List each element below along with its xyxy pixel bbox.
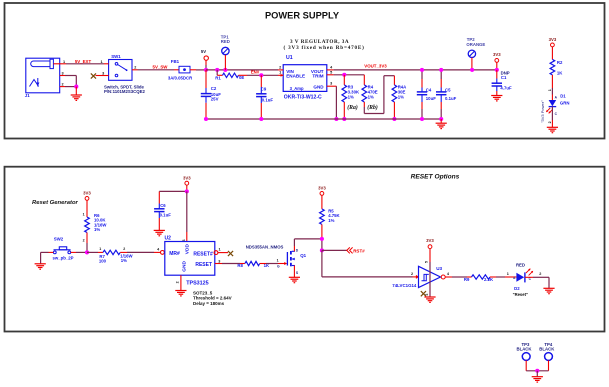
U2 pin 2 GND: [180, 275, 182, 290]
SW1 pin 2: [132, 69, 138, 71]
wire R5 down: [321, 224, 323, 239]
wire TRIM net: [334, 74, 365, 76]
svg-text:25V: 25V: [211, 97, 219, 102]
wire R2 to D1: [551, 75, 553, 88]
junction R5/drain: [320, 237, 324, 241]
svg-text:2: 2: [411, 272, 413, 276]
test point TP3: [516, 342, 532, 371]
svg-text:1: 1: [83, 212, 85, 216]
U1 pin 5: [327, 74, 334, 76]
wire U3 vcc/gnd vertical: [429, 262, 431, 297]
svg-text:G: G: [277, 265, 280, 269]
svg-text:J1: J1: [25, 93, 30, 98]
svg-text:( 3V3 fixed when Rb=470E): ( 3V3 fixed when Rb=470E): [284, 44, 365, 51]
wire J1.2 to gnd: [65, 86, 76, 88]
connector J1: [25, 58, 60, 98]
svg-text:1: 1: [63, 60, 65, 64]
net VOUT_3V3 rail: [334, 69, 497, 71]
resistor R3: [342, 75, 360, 119]
Q1 drain wire: [293, 239, 295, 246]
svg-text:1K: 1K: [557, 70, 563, 75]
wire R4 to R4A series: [363, 107, 365, 114]
svg-text:5V_SW: 5V_SW: [153, 65, 169, 70]
5V rail to U1 VIN: [206, 69, 278, 71]
svg-text:2.2K: 2.2K: [484, 277, 494, 282]
ground J1: [71, 94, 82, 96]
SW1 pin 1: [104, 63, 109, 65]
test point TP1: [221, 35, 230, 70]
wire RESET to R8: [222, 263, 240, 265]
LED D1: [546, 93, 569, 116]
junction J1 gnd: [74, 85, 78, 89]
svg-text:3V3: 3V3: [426, 238, 434, 243]
junction C9 tap: [259, 73, 263, 77]
capacitor C6: [154, 191, 171, 230]
svg-text:1: 1: [507, 272, 509, 276]
power 3V3 R5: [318, 186, 326, 209]
wire R6 to junction: [86, 233, 88, 244]
capacitor C9: [256, 75, 273, 119]
net EN#: [247, 74, 278, 76]
junction U2 VDD: [185, 189, 189, 193]
no-connect U2.1: [228, 251, 233, 256]
power 3V3 main: [493, 52, 501, 70]
wire J1.3 to gnd rail: [65, 75, 76, 77]
U1 pin 2: [278, 69, 283, 71]
svg-text:R2: R2: [557, 60, 563, 65]
svg-text:FB1: FB1: [171, 59, 180, 64]
svg-text:1: 1: [99, 247, 101, 251]
no-connect U3 pad: [421, 291, 426, 296]
svg-text:5: 5: [330, 70, 332, 74]
svg-text:3: 3: [61, 72, 63, 76]
junction R4A gnd rail: [392, 117, 396, 121]
svg-text:POWER SUPPLY: POWER SUPPLY: [265, 10, 340, 20]
svg-text:VDD: VDD: [185, 244, 191, 255]
svg-text:TRIM: TRIM: [312, 74, 323, 79]
svg-text:ORANGE: ORANGE: [466, 42, 485, 47]
wire drain rail: [294, 238, 322, 240]
svg-text:3V3: 3V3: [493, 52, 501, 57]
wire R8 to Q1 gate: [266, 263, 278, 265]
resistor R5: [320, 209, 341, 225]
resistor R1: [215, 70, 247, 80]
junction C9 rail: [259, 117, 263, 121]
switch SW2: [52, 236, 73, 260]
svg-text:C5: C5: [445, 87, 451, 92]
regulator note: [284, 39, 365, 51]
wire VDD down: [186, 191, 188, 232]
svg-text:0.1uF: 0.1uF: [445, 96, 457, 101]
ground top rail: [436, 122, 447, 124]
svg-text:GND: GND: [182, 261, 188, 272]
junction R3 gnd rail: [342, 117, 346, 121]
net 5V_EXT: [66, 63, 104, 65]
wire R7 to U2 MR#: [127, 251, 154, 253]
net 5V_SW: [138, 69, 175, 71]
no-connect SW1.3: [91, 73, 96, 78]
svg-text:2: 2: [83, 238, 85, 242]
gnd stub top rail: [440, 119, 442, 123]
svg-text:BLACK: BLACK: [539, 346, 555, 351]
svg-text:1%: 1%: [121, 258, 127, 263]
svg-text:0.1uF: 0.1uF: [262, 98, 274, 103]
svg-text:ENABLE: ENABLE: [286, 74, 305, 79]
svg-text:R8: R8: [237, 263, 243, 268]
ground D1: [547, 126, 558, 128]
wire SW2 left to gnd: [49, 251, 54, 253]
junction 5V/C2: [204, 68, 208, 72]
svg-text:SW2: SW2: [54, 236, 64, 241]
J1 pin 3: [60, 75, 65, 77]
U1 pin 1: [278, 74, 283, 76]
junction R1 tap: [215, 68, 219, 72]
SW1 pin 3: [96, 75, 109, 77]
svg-text:3A/0.05DCR: 3A/0.05DCR: [168, 75, 193, 80]
svg-text:RESET#: RESET#: [193, 251, 213, 257]
junction R6/SW2/R7: [85, 250, 89, 254]
svg-text:U3: U3: [436, 266, 442, 271]
U2 pin 3 RESET: [215, 263, 222, 265]
svg-text:C9: C9: [261, 86, 267, 91]
svg-text:2: 2: [539, 272, 541, 276]
capacitor C4: [417, 70, 436, 119]
junction C5 top: [439, 68, 443, 72]
ground C1: [491, 95, 502, 97]
junction C2 rail: [204, 117, 208, 121]
svg-text:3V3: 3V3: [183, 175, 191, 180]
svg-text:sw_pb_2P: sw_pb_2P: [52, 256, 73, 261]
svg-text:0.1uF: 0.1uF: [160, 213, 172, 218]
svg-text:3V3: 3V3: [318, 186, 326, 191]
svg-text:C1: C1: [501, 75, 507, 80]
svg-text:D1: D1: [560, 93, 566, 98]
power 3V3 reset gen: [83, 191, 92, 217]
svg-text:2: 2: [176, 281, 180, 283]
resistor R2: [550, 59, 563, 75]
svg-text:1: 1: [279, 71, 281, 75]
ground D2: [543, 287, 554, 289]
capacitor C5: [436, 70, 457, 119]
svg-text:GRN: GRN: [560, 101, 570, 106]
junction C5 bottom: [439, 117, 443, 121]
svg-text:BLACK: BLACK: [516, 346, 532, 351]
U3 input arrow: [416, 275, 419, 279]
capacitor C2: [201, 70, 221, 119]
svg-text:OKR-T/3-W12-C: OKR-T/3-W12-C: [284, 94, 322, 100]
gnd stub J1: [75, 87, 77, 95]
svg-text:SW1: SW1: [111, 54, 121, 59]
power 3V3 U2: [183, 175, 191, 191]
IC U2 TPS3125: [165, 236, 215, 287]
resistor R4: [362, 75, 378, 107]
junction TP gnd: [535, 369, 539, 373]
svg-text:C6: C6: [160, 203, 166, 208]
Q1 source to gnd: [293, 266, 295, 278]
wire to U3 input: [321, 250, 323, 277]
junction U1 gnd rail: [334, 117, 338, 121]
gnd rail top section: [206, 118, 441, 120]
ground C6: [154, 229, 165, 231]
svg-text:1%: 1%: [348, 95, 354, 100]
U1 pin 3: [327, 85, 337, 87]
wire FB1 to 5V node: [190, 69, 196, 71]
switch SW1: [109, 54, 132, 80]
svg-text:74LVC1G14: 74LVC1G14: [392, 283, 417, 288]
J1 pin 1: [53, 63, 66, 65]
ground SW2: [35, 263, 46, 265]
svg-text:P/N:1101M2S3CQE2: P/N:1101M2S3CQE2: [104, 89, 145, 94]
transistor Q1: [277, 249, 307, 275]
svg-text:10uF: 10uF: [426, 96, 436, 101]
svg-text:RED: RED: [516, 263, 525, 268]
svg-text:1%: 1%: [398, 95, 404, 100]
power 3V3 LED branch: [549, 37, 557, 59]
svg-text:(Rb): (Rb): [367, 104, 378, 111]
svg-text:5V: 5V: [201, 49, 206, 54]
U3 output bubble: [441, 275, 445, 279]
svg-text:C2: C2: [211, 86, 217, 91]
U2 notes: [193, 290, 232, 306]
svg-text:3: 3: [218, 260, 220, 264]
svg-text:Reset Generator: Reset Generator: [32, 200, 79, 206]
ground Q1: [289, 276, 300, 278]
svg-text:1: 1: [100, 60, 102, 64]
svg-text:100: 100: [99, 259, 107, 264]
svg-text:3_Amp: 3_Amp: [290, 86, 304, 91]
U2 pin 1 RESET#: [214, 251, 218, 255]
svg-text:5: 5: [425, 261, 429, 263]
svg-text:R1: R1: [215, 75, 221, 80]
svg-text:Delay = 180ms: Delay = 180ms: [193, 301, 225, 306]
wire D2 to gnd: [525, 276, 533, 278]
svg-text:4.7uF: 4.7uF: [500, 86, 512, 91]
ground U2: [175, 290, 186, 292]
svg-text:2: 2: [134, 66, 136, 70]
net label RST#: [322, 247, 365, 253]
svg-text:5V_EXT: 5V_EXT: [75, 59, 92, 64]
svg-text:RST#: RST#: [353, 248, 365, 253]
test point TP4: [539, 342, 555, 371]
gnd stub TP: [536, 371, 538, 377]
junction C4 top: [420, 68, 424, 72]
power supply frame: [5, 3, 605, 139]
svg-text:SOT23_5: SOT23_5: [193, 290, 213, 295]
ground TP: [532, 376, 543, 378]
svg-text:2: 2: [548, 121, 552, 123]
svg-text:RESET: RESET: [195, 262, 212, 268]
svg-text:1: 1: [218, 248, 220, 252]
U1 pin 4: [327, 69, 334, 71]
wire TP3-TP4 gnd: [526, 370, 548, 372]
capacitor C1 DNP: [492, 70, 512, 95]
power 5V: [201, 49, 209, 70]
resistor R8: [237, 261, 270, 268]
junction TP2: [470, 68, 474, 72]
gate U3 inverter: [392, 266, 442, 288]
svg-text:3: 3: [102, 71, 104, 75]
svg-text:3V3: 3V3: [549, 37, 557, 42]
svg-text:NDS355AN_NMOS: NDS355AN_NMOS: [246, 244, 284, 249]
IC U1 regulator: [283, 55, 327, 100]
power 3V3 U3: [425, 238, 435, 263]
wire U1 GND to rail: [335, 86, 337, 119]
junction TP1 tap: [223, 68, 227, 72]
3V3 rail over U2: [159, 190, 187, 192]
svg-text:0E: 0E: [239, 75, 244, 80]
junction RST# tap: [320, 248, 324, 252]
svg-text:C4: C4: [426, 87, 432, 92]
svg-text:MR#: MR#: [169, 251, 180, 257]
resistor R4A: [392, 76, 406, 119]
wire U3 out to R9: [445, 276, 452, 278]
svg-text:3V3: 3V3: [83, 191, 91, 196]
ground U3: [424, 296, 435, 298]
resistor R9: [464, 275, 496, 282]
resistor R7: [98, 247, 134, 264]
U2 pin 4 bubble: [161, 251, 165, 255]
svg-text:2: 2: [61, 83, 63, 87]
svg-text:3: 3: [330, 82, 332, 86]
svg-text:Q1: Q1: [300, 253, 306, 258]
wire D1 to gnd: [551, 107, 553, 120]
wire R9 to D2: [496, 276, 505, 278]
junction C4 bottom: [420, 117, 424, 121]
svg-text:U1: U1: [286, 55, 293, 61]
svg-text:1: 1: [548, 89, 552, 91]
svg-text:EN#: EN#: [251, 70, 260, 75]
svg-text:U2: U2: [165, 236, 172, 242]
Q1 gate arrow: [284, 262, 287, 265]
wire SW2 right to junction: [71, 251, 76, 253]
wire junction to R7: [87, 251, 98, 253]
svg-text:(Ra): (Ra): [347, 104, 358, 111]
svg-text:R9: R9: [464, 277, 470, 282]
svg-text:1%: 1%: [94, 227, 100, 232]
J1 pin 2: [60, 86, 65, 88]
svg-text:1%: 1%: [368, 95, 374, 100]
junction TRIM/R3: [342, 73, 346, 77]
svg-text:2: 2: [279, 65, 281, 69]
svg-text:GND: GND: [313, 85, 324, 90]
svg-text:RED: RED: [221, 39, 230, 44]
reset options frame: [5, 167, 605, 332]
test point TP2: [466, 37, 485, 70]
resistor R6: [85, 213, 108, 233]
svg-text:VOUT_3V3: VOUT_3V3: [364, 64, 387, 69]
SW1 description: [104, 84, 145, 94]
svg-text:1%: 1%: [328, 218, 334, 223]
svg-text:D2: D2: [514, 286, 520, 291]
LED D2: [513, 263, 534, 298]
svg-text:"3V3 Power": "3V3 Power": [540, 100, 545, 123]
fuse FB1: [168, 59, 193, 80]
svg-text:1: 1: [277, 259, 279, 263]
svg-text:TPS3125: TPS3125: [186, 281, 208, 287]
svg-text:RESET Options: RESET Options: [411, 174, 460, 181]
svg-text:"Reset": "Reset": [513, 292, 528, 297]
svg-text:2: 2: [123, 247, 125, 251]
junction 3V3/C1: [495, 68, 499, 72]
